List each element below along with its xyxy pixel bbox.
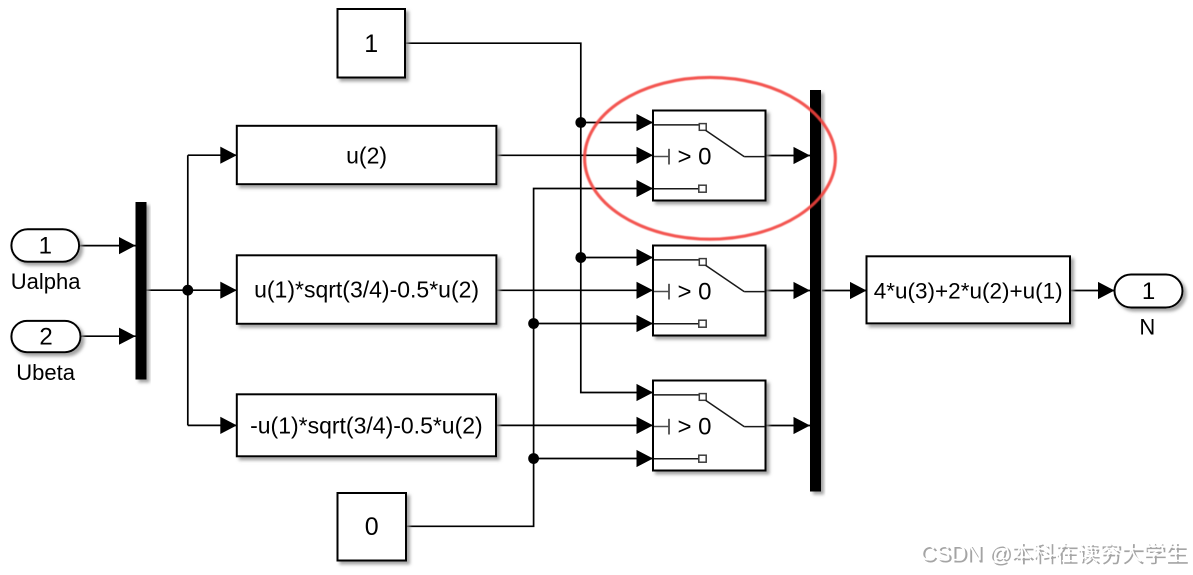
Switch3 internal selector arm [706,400,745,426]
arrowhead into Fcn3 [220,417,237,434]
wire vertical branch for Fcn1/Fcn3 [187,155,189,425]
wire branch to Switch3 bottom input [534,458,653,460]
svg-text:Ualpha: Ualpha [11,269,81,294]
arrowhead into Switch1 top input [637,114,654,131]
Switch3 internal control lead [654,426,669,428]
Switch1 internal top port lead [654,124,699,126]
mux block Mux2 (vertical bar) [810,90,821,492]
arrowhead into Switch3 top input [637,384,654,401]
Switch3 internal output lead [744,426,765,428]
Switch2 internal top port lead [654,259,699,261]
arrowhead into Fcn1 [220,147,237,164]
arrowhead into Outport N [1098,282,1115,299]
wire branch to Switch2 top input [581,257,653,259]
Switch1 internal control tick [668,149,670,165]
Switch2 internal selector arm [706,265,745,291]
svg-text:u(1)*sqrt(3/4)-0.5*u(2): u(1)*sqrt(3/4)-0.5*u(2) [254,277,479,303]
inport block 2 (Ubeta) [11,321,80,352]
arrowhead into Switch3 control [637,417,654,434]
Switch3 internal bottom port lead [654,458,699,460]
arrowhead into Switch1 bottom input [637,180,654,197]
watermark CSDN highlight layer [920,540,1186,565]
junction on Mux1 output [182,285,193,296]
svg-text:1: 1 [39,233,52,260]
Switch1 internal bottom port lead [654,188,699,190]
wire Fcn4 output to Outport [1070,290,1115,292]
svg-text:1: 1 [364,30,378,58]
arrowhead into Mux1 port1 [119,237,136,254]
wire Mux2 output to Fcn4 [822,290,867,292]
Switch2 internal bottom port lead [654,323,699,325]
wire Switch3 output to Mux2 [766,425,811,427]
svg-text:> 0: > 0 [678,414,712,441]
junction at Switch1 top branch [575,117,586,128]
arrowhead into Mux2 port3 [794,417,811,434]
arrowhead into Switch2 bottom input [637,315,654,332]
junction at Switch2 top branch [575,252,586,263]
wire Switch1 output to Mux2 [766,155,811,157]
wire Inport1 to Mux1 [79,245,135,247]
Switch2 internal control tick [668,284,670,300]
svg-text:> 0: > 0 [678,144,712,171]
wire branch to Fcn1 input [188,154,237,156]
Switch3 internal top port lead [654,394,699,396]
Switch3 internal top port square [699,394,706,401]
watermark CSDN text [922,543,1188,568]
arrowhead into Mux1 port2 [119,328,136,345]
wire Fcn1 output to Switch1 control [496,154,653,156]
wire branch to Switch2 bottom input [534,323,653,325]
arrowhead into Switch2 control [637,282,654,299]
svg-text:-u(1)*sqrt(3/4)-0.5*u(2): -u(1)*sqrt(3/4)-0.5*u(2) [250,412,483,438]
Switch2 internal top port square [699,259,706,266]
svg-text:2: 2 [39,324,52,351]
inport block 1 (Ualpha) [11,229,79,261]
fcn block Fcn1 [237,126,497,184]
Switch3 internal bottom port square [699,455,706,462]
svg-text:CSDN @: CSDN @ [920,540,1011,565]
mux block Mux1 (vertical bar) [136,202,147,380]
outport block N [1115,275,1183,308]
svg-text:4*u(3)+2*u(2)+u(1): 4*u(3)+2*u(2)+u(1) [874,279,1063,304]
Switch2 internal output lead [744,291,765,293]
junction at Switch2 bottom branch [528,318,539,329]
svg-text:N: N [1139,315,1155,340]
arrowhead into Switch1 control [637,147,654,164]
Switch2 internal control lead [654,291,669,293]
fcn block Fcn3 [237,394,496,456]
svg-text:0: 0 [365,513,379,541]
arrowhead into Mux2 port1 [794,147,811,164]
switch block Switch1 [653,111,766,201]
Switch3 internal control tick [668,419,670,435]
Switch1 internal bottom port square [699,185,706,192]
wire Inport2 to Mux1 [81,335,136,337]
constant block Const0 [338,493,407,561]
svg-text:u(2): u(2) [346,142,387,168]
switch block Switch3 [653,381,766,471]
arrowhead into Fcn4 [850,282,867,299]
arrowhead into Fcn2 [220,282,237,299]
wire Const1 output trunk to Switch3 top input [405,43,653,392]
Switch1 internal top port square [699,124,706,131]
Switch2 internal bottom port square [699,320,706,327]
fcn block Fcn2 [237,255,497,323]
arrowhead into Switch3 bottom input [637,450,654,467]
Switch1 internal output lead [744,156,765,158]
wire Const0 output trunk to Switch1 bottom input [406,189,653,527]
arrowhead into Switch2 top input [637,249,654,266]
svg-text:Ubeta: Ubeta [16,360,75,385]
wire branch to Switch1 top input [581,122,653,124]
wire Mux1 output to Fcn2 [147,289,237,291]
svg-text:> 0: > 0 [678,279,712,306]
wire branch to Fcn3 input [188,424,237,426]
fcn block Fcn4 [867,256,1071,323]
arrowhead into Mux2 port2 [794,282,811,299]
switch block Switch2 [653,246,766,336]
wire Fcn2 output to Switch2 control [496,289,653,291]
wire Switch2 output to Mux2 [766,290,811,292]
junction at Switch3 bottom branch [528,453,539,464]
Switch1 internal control lead [654,156,669,158]
svg-text:1: 1 [1142,278,1155,305]
annotation red ellipse highlighting Switch1 [585,77,836,239]
Switch1 internal selector arm [706,130,745,156]
constant block Const1 [338,9,406,78]
wire Fcn3 output to Switch3 control [496,424,653,426]
